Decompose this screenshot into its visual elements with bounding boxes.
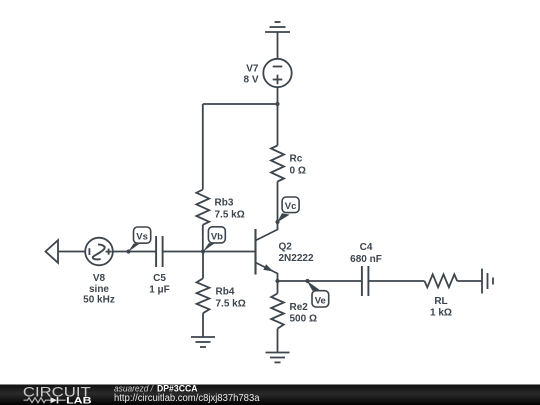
- node Ve junction: [305, 279, 309, 283]
- footer bar: [0, 385, 540, 405]
- ground GND left: [191, 337, 215, 347]
- capacitor C4: [362, 266, 369, 296]
- svg-text:V7: V7: [246, 64, 259, 75]
- svg-text:sine: sine: [89, 284, 109, 295]
- wire Re2 to ground: [277, 329, 279, 353]
- CircuitLab logo wordmark: [23, 384, 92, 405]
- svg-text:C4: C4: [360, 242, 373, 253]
- node Vc junction: [275, 220, 279, 224]
- node Vs junction: [126, 249, 130, 253]
- wire V7 to rail junction: [277, 87, 279, 104]
- RL value label: [430, 296, 452, 319]
- svg-text:Ve: Ve: [315, 295, 326, 306]
- node label Vb: [203, 227, 225, 252]
- svg-text:V8: V8: [93, 273, 106, 284]
- svg-text:2N2222: 2N2222: [279, 253, 314, 264]
- svg-text:680 nF: 680 nF: [350, 254, 382, 265]
- svg-text:Vs: Vs: [136, 232, 148, 243]
- wire Rc to node Vc: [277, 182, 279, 223]
- wire emitter to C4: [278, 280, 362, 282]
- svg-text:Re2: Re2: [290, 302, 309, 313]
- capacitor C5: [156, 236, 163, 267]
- svg-text:500 Ω: 500 Ω: [290, 314, 317, 325]
- wire Rb3 to node Vb: [202, 225, 204, 252]
- svg-text:Rb3: Rb3: [215, 198, 234, 209]
- wire Rb4 to ground: [202, 313, 204, 337]
- ground GND right rotated: [482, 269, 493, 294]
- wire Vb down to Rb4: [202, 252, 204, 279]
- wire V8 to C5: [113, 251, 156, 253]
- Rc value label: [290, 154, 306, 177]
- node junction rail: [275, 102, 279, 106]
- node emitter junction: [275, 279, 279, 283]
- wire C5 to Q2 base: [163, 251, 256, 253]
- svg-text:Q2: Q2: [279, 242, 293, 253]
- svg-text:C5: C5: [153, 273, 166, 284]
- node label Vs: [128, 227, 150, 252]
- svg-text:1 kΩ: 1 kΩ: [430, 308, 452, 319]
- V7 value label: [243, 64, 258, 86]
- resistor RL: [425, 274, 458, 287]
- svg-text:Vb: Vb: [211, 231, 223, 242]
- resistor Rc: [271, 146, 284, 182]
- svg-text:LAB: LAB: [66, 395, 92, 405]
- resistor Re2: [271, 294, 284, 329]
- svg-text:Rc: Rc: [290, 154, 303, 165]
- wire triangle to V8: [58, 251, 85, 253]
- transistor Q2: [256, 222, 278, 281]
- V8 value label: [83, 273, 115, 306]
- wire C4 to RL: [368, 280, 424, 282]
- Re2 value label: [290, 302, 317, 325]
- resistor Rb3: [196, 190, 209, 225]
- Q2 value label: [279, 242, 314, 265]
- node Vb junction: [201, 249, 205, 253]
- C5 value label: [149, 273, 170, 296]
- wire rail down to Rb3: [202, 104, 204, 190]
- node label Ve: [307, 281, 329, 307]
- svg-text:0 Ω: 0 Ω: [290, 166, 306, 177]
- wire V7 junction down to Rc: [277, 104, 279, 146]
- Rb4 value label: [216, 287, 246, 310]
- svg-text:7.5 kΩ: 7.5 kΩ: [215, 210, 245, 221]
- svg-text:RL: RL: [434, 296, 447, 307]
- wire emitter down to Re2: [277, 281, 279, 294]
- svg-text:Rb4: Rb4: [216, 287, 235, 298]
- svg-text:50 kHz: 50 kHz: [83, 295, 115, 306]
- svg-text:http://circuitlab.com/c8jxj837: http://circuitlab.com/c8jxj837h783a: [114, 393, 260, 404]
- svg-text:7.5 kΩ: 7.5 kΩ: [216, 299, 246, 310]
- wire ground to V7: [277, 32, 279, 59]
- Rb3 value label: [215, 198, 245, 221]
- voltage source V7: [263, 59, 291, 87]
- svg-text:8 V: 8 V: [243, 75, 258, 86]
- wire RL to ground right: [457, 280, 482, 282]
- resistor Rb4: [197, 278, 210, 313]
- terminal input triangle: [46, 240, 59, 263]
- CircuitLab logo resistor-diode glyph: [24, 397, 66, 404]
- C4 value label: [350, 242, 382, 265]
- voltage source V8: [85, 238, 113, 266]
- ground GND bottom: [266, 353, 290, 363]
- wire top rail: [203, 103, 278, 105]
- svg-text:1 μF: 1 μF: [149, 285, 170, 296]
- node label Vc: [277, 197, 299, 222]
- ground GND top: [265, 22, 290, 32]
- svg-text:Vc: Vc: [285, 201, 297, 212]
- footer title text: [114, 384, 260, 404]
